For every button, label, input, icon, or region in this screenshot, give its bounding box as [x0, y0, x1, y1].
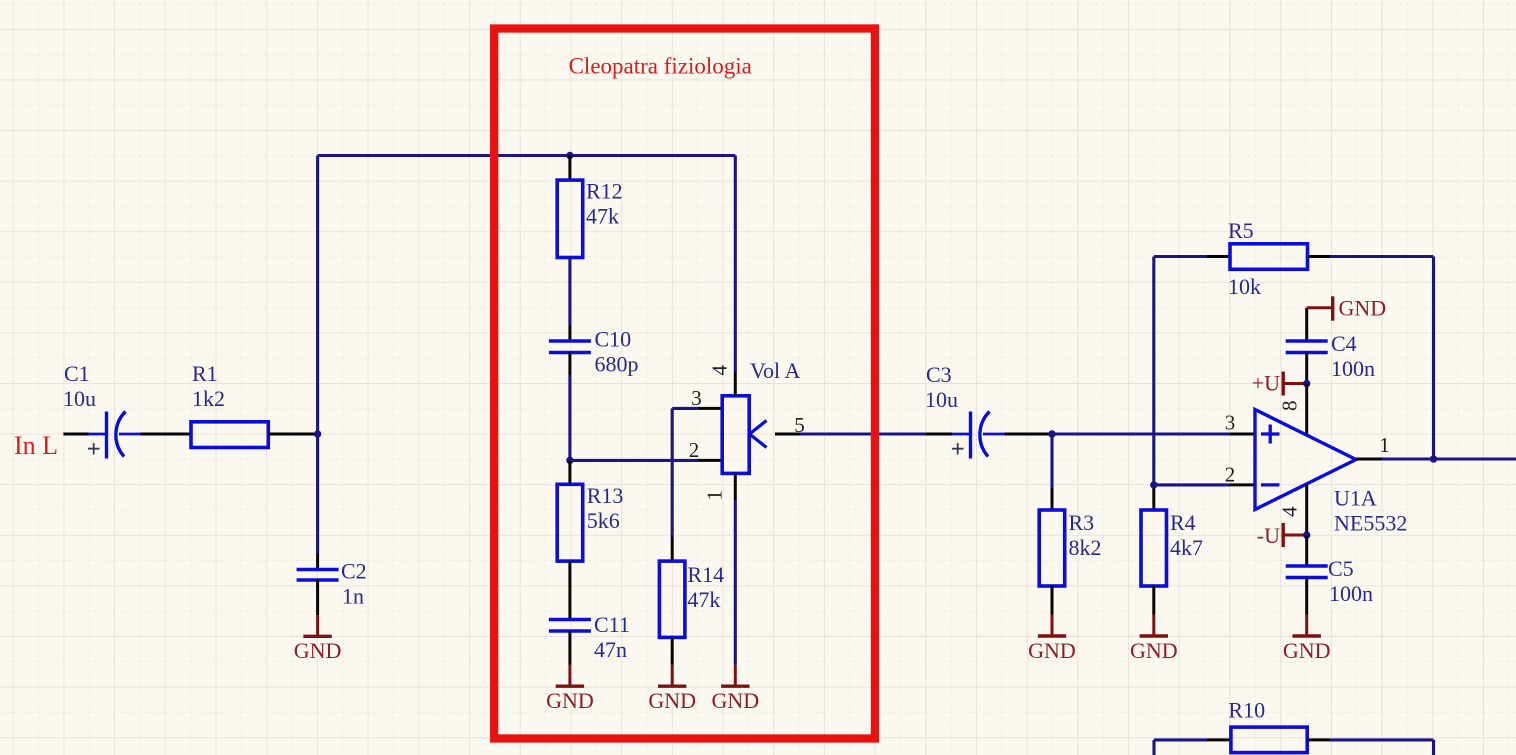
- wire input to C1: [63, 433, 89, 436]
- resistor R3: [1039, 510, 1065, 586]
- junction node A: [314, 430, 321, 437]
- resistor R10: [1231, 727, 1307, 753]
- svg-text:C3: C3: [926, 362, 952, 387]
- junction node D: [1150, 481, 1157, 488]
- resistor R1: [191, 422, 268, 448]
- svg-text:100n: 100n: [1329, 581, 1373, 606]
- svg-text:2: 2: [689, 438, 700, 462]
- svg-text:GND: GND: [711, 688, 759, 713]
- svg-text:R14: R14: [687, 562, 724, 587]
- svg-text:GND: GND: [1339, 296, 1387, 321]
- svg-text:In L: In L: [14, 431, 58, 460]
- resistor R4: [1141, 510, 1167, 586]
- label R12 value 47k: [586, 179, 623, 229]
- label U1A NE5532: [1334, 486, 1407, 536]
- wire R10 left column: [1154, 740, 1231, 755]
- junction +U node: [1303, 380, 1310, 387]
- svg-text:Vol A: Vol A: [750, 358, 800, 383]
- svg-text:4k7: 4k7: [1170, 535, 1203, 560]
- svg-text:C4: C4: [1331, 331, 1357, 356]
- junction top node: [566, 152, 573, 159]
- label Cleopatra fiziologia: [569, 54, 752, 79]
- node In L label: [14, 431, 58, 460]
- wire node B to pot pin 2: [570, 459, 722, 462]
- svg-text:GND: GND: [1028, 638, 1076, 663]
- label R14 value 47k: [687, 562, 724, 612]
- pin number 2 pot: [689, 438, 700, 462]
- pin number 4 op-amp: [1278, 506, 1302, 517]
- capacitor C3 (polarized): [952, 412, 1005, 459]
- label C4 value 100n: [1331, 331, 1375, 381]
- ground above C4 (rotated): [1307, 296, 1386, 321]
- wire top run to R12 node: [318, 154, 570, 157]
- svg-text:U1A: U1A: [1334, 486, 1377, 511]
- wire node D to op-amp pin 2: [1154, 483, 1255, 486]
- svg-text:4: 4: [707, 365, 731, 376]
- label R4 value 4k7: [1170, 510, 1203, 560]
- wire node B to R13: [568, 460, 571, 484]
- label R5: [1228, 218, 1254, 243]
- svg-text:R10: R10: [1228, 698, 1265, 723]
- wire C2 to ground: [316, 580, 319, 615]
- label R3 value 8k2: [1069, 510, 1102, 560]
- wire C1 to R1: [141, 433, 192, 436]
- wire C10 to node B: [568, 353, 571, 461]
- resistor R5: [1230, 244, 1308, 269]
- wire node A up: [316, 156, 319, 435]
- op-amp U1A triangle: [1255, 410, 1356, 510]
- svg-text:8: 8: [1278, 401, 1302, 412]
- svg-text:47k: 47k: [687, 587, 720, 612]
- wire R14 to ground: [671, 637, 674, 664]
- pin number 3 op-amp: [1225, 411, 1236, 435]
- svg-text:10u: 10u: [63, 386, 96, 411]
- red highlight box Cleopatra fiziologia: [494, 29, 875, 739]
- capacitor C5: [1286, 566, 1328, 578]
- wire R10 right column: [1307, 740, 1433, 755]
- wire top run to pot pin 4 corner: [570, 154, 735, 157]
- svg-text:10u: 10u: [925, 387, 958, 412]
- svg-text:5k6: 5k6: [587, 508, 620, 533]
- wire C4 top to ground corner: [1305, 308, 1308, 341]
- svg-text:680p: 680p: [595, 352, 639, 377]
- wire R1 to node A: [268, 433, 317, 436]
- svg-text:R12: R12: [586, 179, 623, 204]
- power -U symbol: [1257, 523, 1307, 548]
- wire op-amp pin 4: [1305, 484, 1308, 535]
- label R10: [1228, 698, 1265, 723]
- svg-text:+U: +U: [1252, 371, 1280, 396]
- svg-text:-U: -U: [1257, 523, 1280, 548]
- pin number 3 pot: [691, 386, 702, 410]
- svg-text:C10: C10: [595, 327, 632, 352]
- svg-text:R13: R13: [587, 483, 624, 508]
- op-amp minus input mark: [1261, 483, 1280, 486]
- wire -U node to C5: [1305, 535, 1308, 566]
- label C1 value 10u: [63, 361, 96, 411]
- svg-text:2: 2: [1225, 462, 1236, 486]
- capacitor C2: [297, 570, 339, 581]
- pin number 8 op-amp: [1278, 401, 1302, 412]
- pin number 4 pot: [707, 365, 731, 376]
- junction output node: [1430, 455, 1437, 462]
- label R5 value 10k: [1228, 274, 1261, 299]
- wire op-amp pin 8: [1305, 384, 1308, 437]
- pin number 5 pot: [794, 413, 805, 437]
- svg-text:R4: R4: [1170, 510, 1196, 535]
- wire feedback vertical R4 column: [1152, 257, 1155, 511]
- label C11 value 47n: [594, 612, 630, 662]
- ground under C2: [294, 615, 342, 663]
- label C2 value 1n: [341, 559, 367, 609]
- ground under pot pin 1: [711, 665, 759, 714]
- svg-text:C5: C5: [1328, 556, 1354, 581]
- op-amp plus input mark: [1261, 425, 1280, 444]
- wire pot pin 1 to ground: [734, 473, 737, 664]
- pin number 1 pot: [703, 490, 727, 501]
- ground under R4: [1130, 615, 1178, 664]
- wire C4 to +U node: [1305, 353, 1308, 384]
- label R13 value 5k6: [587, 483, 624, 533]
- pin number 2 op-amp: [1225, 462, 1236, 486]
- svg-text:GND: GND: [1130, 638, 1178, 663]
- svg-text:GND: GND: [294, 638, 342, 663]
- wire C3 to node C: [1005, 433, 1053, 436]
- wire pin to R12: [568, 156, 571, 181]
- ground under C11: [546, 665, 594, 714]
- svg-text:4: 4: [1278, 506, 1302, 517]
- wire R5 right to output node: [1308, 257, 1434, 460]
- capacitor C1 (polarized): [88, 412, 141, 459]
- svg-text:C1: C1: [64, 361, 90, 386]
- svg-text:1: 1: [1379, 433, 1390, 457]
- svg-text:1k2: 1k2: [192, 386, 225, 411]
- wire R12 to C10: [568, 258, 571, 342]
- ground under R14: [648, 665, 696, 714]
- svg-text:GND: GND: [1283, 638, 1331, 663]
- wire R3 to ground: [1051, 586, 1054, 615]
- svg-text:GND: GND: [648, 688, 696, 713]
- wire node A down to C2: [316, 434, 319, 570]
- svg-text:3: 3: [1225, 411, 1236, 435]
- svg-text:1: 1: [703, 490, 727, 501]
- pin number 1 op-amp: [1379, 433, 1390, 457]
- junction -U node: [1303, 531, 1310, 538]
- svg-text:Cleopatra fiziologia: Cleopatra fiziologia: [569, 54, 752, 79]
- wire R13 to C11: [568, 561, 571, 619]
- label Vol A: [750, 358, 800, 383]
- wire pot pin 4 down: [734, 156, 737, 396]
- label R1 value 1k2: [192, 361, 225, 411]
- label C10 value 680p: [595, 327, 639, 377]
- label C5 value 100n: [1328, 556, 1373, 606]
- wire pot pin 3 loop: [672, 408, 722, 561]
- capacitor C10: [549, 341, 591, 353]
- wire R4 to ground: [1152, 586, 1155, 615]
- label C3 value 10u: [925, 362, 958, 412]
- svg-text:1n: 1n: [342, 584, 364, 609]
- svg-text:47n: 47n: [594, 637, 627, 662]
- svg-text:C11: C11: [594, 612, 630, 637]
- potentiometer wiper arrow pin 5: [750, 421, 767, 448]
- svg-text:GND: GND: [546, 688, 594, 713]
- wire C11 to ground: [568, 631, 571, 665]
- capacitor C4: [1286, 341, 1328, 353]
- junction node C: [1048, 430, 1055, 437]
- wire node C to op-amp pin 3: [1052, 432, 1255, 435]
- svg-text:3: 3: [691, 386, 702, 410]
- wire node C to R3: [1050, 434, 1053, 510]
- svg-text:8k2: 8k2: [1069, 535, 1102, 560]
- wire C5 to ground: [1305, 578, 1308, 615]
- wire R5 left: [1154, 255, 1230, 258]
- svg-text:C2: C2: [341, 559, 367, 584]
- wire op-amp output pin 1: [1356, 458, 1516, 461]
- resistor R13: [557, 484, 583, 561]
- ground under C5: [1283, 615, 1331, 664]
- svg-text:R1: R1: [192, 361, 218, 386]
- junction node B: [566, 457, 573, 464]
- svg-text:47k: 47k: [586, 204, 619, 229]
- power +U symbol: [1252, 371, 1307, 396]
- ground under R3: [1028, 615, 1076, 664]
- svg-text:NE5532: NE5532: [1334, 511, 1407, 536]
- wire pin 5 to C3: [775, 433, 952, 436]
- resistor R14: [659, 561, 685, 637]
- svg-text:100n: 100n: [1331, 356, 1375, 381]
- potentiometer Vol A body: [722, 396, 749, 474]
- svg-text:R5: R5: [1228, 218, 1254, 243]
- svg-text:10k: 10k: [1228, 274, 1261, 299]
- svg-text:R3: R3: [1069, 510, 1095, 535]
- resistor R12: [557, 180, 583, 257]
- capacitor C11: [549, 620, 591, 632]
